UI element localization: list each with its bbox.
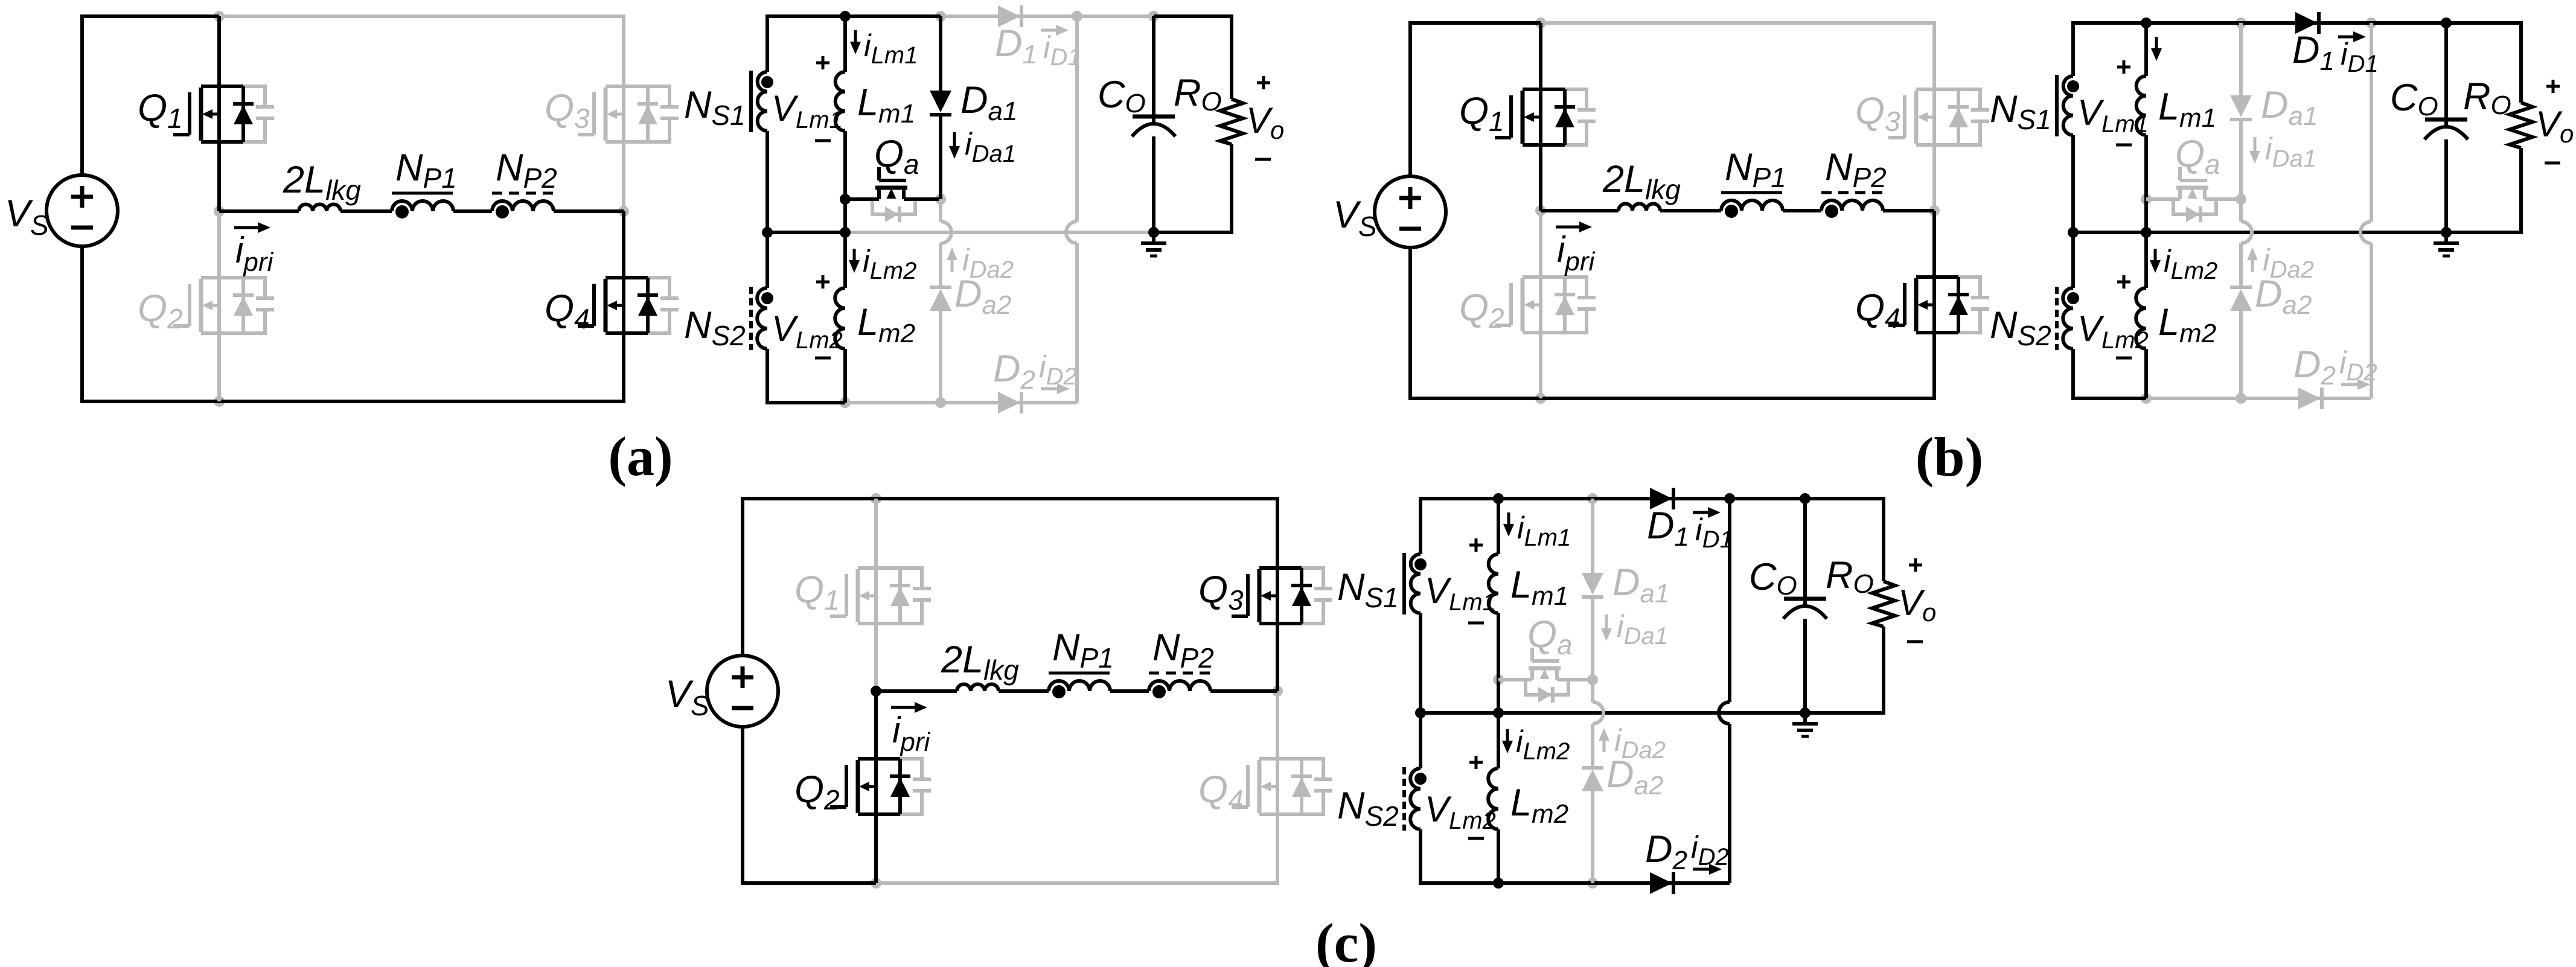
svg-text:Q3: Q3: [1855, 90, 1900, 137]
svg-text:NS2: NS2: [1990, 304, 2051, 351]
svg-text:VLm1: VLm1: [772, 88, 843, 133]
svg-text:Qa: Qa: [874, 133, 919, 180]
svg-text:RO: RO: [1174, 72, 1222, 116]
svg-text:Lm1: Lm1: [1510, 564, 1568, 611]
svg-text:NP2: NP2: [1825, 146, 1887, 193]
svg-text:NS2: NS2: [1337, 785, 1399, 832]
svg-text:iD1: iD1: [1695, 512, 1733, 553]
svg-text:VLm2: VLm2: [772, 308, 843, 354]
svg-text:Q3: Q3: [545, 87, 590, 134]
svg-text:D2: D2: [1645, 828, 1687, 875]
svg-text:ipri: ipri: [235, 230, 273, 277]
svg-text:VS: VS: [665, 673, 709, 721]
svg-text:iDa1: iDa1: [1617, 609, 1668, 649]
svg-text:Vo: Vo: [1246, 100, 1284, 144]
svg-text:NP2: NP2: [1152, 627, 1214, 674]
svg-text:iLm1: iLm1: [1517, 511, 1571, 551]
svg-text:Q2: Q2: [1459, 287, 1504, 334]
svg-text:VLm2: VLm2: [1425, 789, 1496, 834]
svg-text:Q1: Q1: [794, 569, 840, 616]
svg-text:NS2: NS2: [684, 304, 746, 351]
svg-text:NS1: NS1: [1990, 88, 2051, 135]
svg-text:RO: RO: [1826, 554, 1874, 599]
svg-text:Vo: Vo: [2536, 104, 2574, 148]
svg-text:Vo: Vo: [1898, 582, 1936, 627]
svg-text:iDa2: iDa2: [2263, 243, 2314, 283]
svg-text:2Llkg: 2Llkg: [1602, 158, 1681, 205]
svg-text:Qa: Qa: [2175, 133, 2220, 180]
svg-text:iDa2: iDa2: [1614, 723, 1666, 764]
svg-text:(a): (a): [608, 426, 673, 487]
svg-text:D1: D1: [1647, 505, 1689, 552]
svg-text:CO: CO: [1098, 74, 1146, 118]
svg-text:iLm1: iLm1: [864, 28, 918, 69]
svg-text:Qa: Qa: [1527, 613, 1573, 660]
svg-text:NS1: NS1: [684, 84, 746, 131]
svg-text:Da1: Da1: [2261, 84, 2318, 131]
svg-text:(c): (c): [1315, 912, 1377, 967]
svg-text:(b): (b): [1916, 426, 1983, 488]
svg-text:NP1: NP1: [1052, 627, 1114, 674]
svg-text:2Llkg: 2Llkg: [941, 639, 1019, 686]
svg-text:CO: CO: [1749, 556, 1797, 601]
svg-text:D2: D2: [993, 348, 1035, 395]
svg-text:NP1: NP1: [395, 147, 457, 194]
svg-text:iLm2: iLm2: [1516, 724, 1570, 765]
svg-text:ipri: ipri: [1557, 229, 1595, 276]
svg-text:Lm1: Lm1: [2158, 86, 2216, 133]
svg-text:NP1: NP1: [1725, 146, 1786, 193]
svg-text:iLm2: iLm2: [863, 244, 916, 284]
svg-text:ipri: ipri: [892, 710, 930, 757]
svg-text:iDa1: iDa1: [965, 127, 1016, 167]
svg-text:Q3: Q3: [1198, 569, 1244, 616]
svg-text:CO: CO: [2390, 77, 2438, 121]
svg-text:iDa1: iDa1: [2265, 132, 2316, 172]
svg-text:Q4: Q4: [1198, 768, 1244, 815]
svg-text:Q1: Q1: [138, 87, 183, 134]
svg-text:Q4: Q4: [1855, 287, 1900, 334]
svg-text:Q2: Q2: [138, 287, 183, 334]
svg-text:D1: D1: [995, 22, 1037, 69]
svg-text:Lm1: Lm1: [857, 81, 915, 129]
svg-text:Lm2: Lm2: [857, 301, 915, 348]
svg-text:NP2: NP2: [496, 147, 557, 194]
svg-text:D1: D1: [2292, 29, 2335, 76]
svg-text:Da1: Da1: [960, 79, 1017, 126]
svg-text:Q1: Q1: [1459, 90, 1504, 137]
svg-text:Lm2: Lm2: [2158, 301, 2216, 348]
svg-text:D2: D2: [2293, 343, 2336, 391]
svg-text:iLm2: iLm2: [2164, 244, 2217, 284]
svg-text:NS1: NS1: [1337, 566, 1399, 613]
svg-text:2Llkg: 2Llkg: [283, 159, 361, 206]
svg-text:VS: VS: [1333, 194, 1377, 242]
svg-text:Lm2: Lm2: [1510, 782, 1568, 829]
svg-text:Q4: Q4: [545, 287, 590, 334]
svg-text:VS: VS: [5, 193, 49, 241]
svg-text:Da1: Da1: [1612, 561, 1669, 608]
svg-text:iDa2: iDa2: [962, 243, 1014, 283]
svg-text:RO: RO: [2463, 75, 2511, 120]
svg-text:VLm1: VLm1: [1425, 570, 1496, 616]
svg-text:Q2: Q2: [794, 768, 840, 815]
